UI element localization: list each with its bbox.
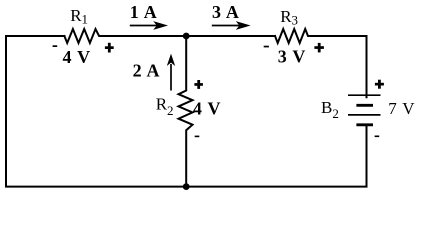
svg-text:3 A: 3 A: [212, 2, 240, 22]
svg-text:3 V: 3 V: [278, 47, 306, 67]
svg-text:4 V: 4 V: [63, 47, 91, 67]
svg-text:7 V: 7 V: [388, 99, 415, 118]
svg-text:4 V: 4 V: [193, 99, 221, 119]
svg-text:1 A: 1 A: [130, 2, 158, 22]
svg-text:2 A: 2 A: [133, 60, 161, 80]
